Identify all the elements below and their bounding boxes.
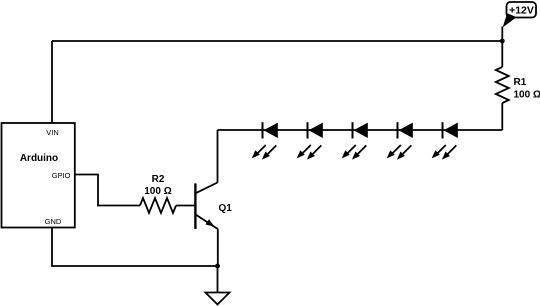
wire R2 to base: [176, 205, 195, 207]
LED D5: [432, 122, 458, 159]
svg-text:GND: GND: [45, 217, 62, 226]
svg-text:Arduino: Arduino: [20, 153, 58, 164]
wire collector vertical: [217, 130, 219, 183]
wire left vertical to VIN: [51, 41, 53, 123]
svg-text:+12V: +12V: [509, 5, 534, 17]
resistor R2: [140, 174, 176, 213]
svg-text:100 Ω: 100 Ω: [514, 90, 540, 101]
svg-text:Q1: Q1: [219, 203, 233, 214]
svg-text:R1: R1: [514, 77, 527, 88]
wire from +12V flag to node: [501, 27, 503, 42]
LED D4: [387, 122, 413, 159]
svg-text:100 Ω: 100 Ω: [144, 186, 171, 197]
wire to ground symbol: [217, 266, 219, 293]
resistor R1: [496, 67, 540, 103]
node junction top right: [500, 39, 505, 44]
wire LED row horizontal: [218, 129, 503, 131]
svg-text:VIN: VIN: [46, 128, 59, 137]
wire emitter vertical: [217, 229, 219, 266]
LED D2: [297, 122, 323, 159]
svg-text:R2: R2: [152, 174, 165, 185]
transistor Q1: [195, 183, 232, 230]
svg-text:GPIO: GPIO: [52, 171, 71, 180]
wire R1 bottom to LED row: [501, 103, 503, 130]
wire GPIO step: [75, 175, 140, 206]
Arduino block: [2, 123, 75, 228]
LED D3: [342, 122, 368, 159]
ground: [206, 293, 230, 305]
wire GND from Arduino: [52, 228, 218, 267]
wire top horizontal: [52, 40, 502, 42]
LED D1: [252, 122, 278, 159]
power flag +12V: [503, 2, 536, 28]
node junction ground: [215, 264, 220, 269]
wire node to R1 top: [501, 41, 503, 67]
